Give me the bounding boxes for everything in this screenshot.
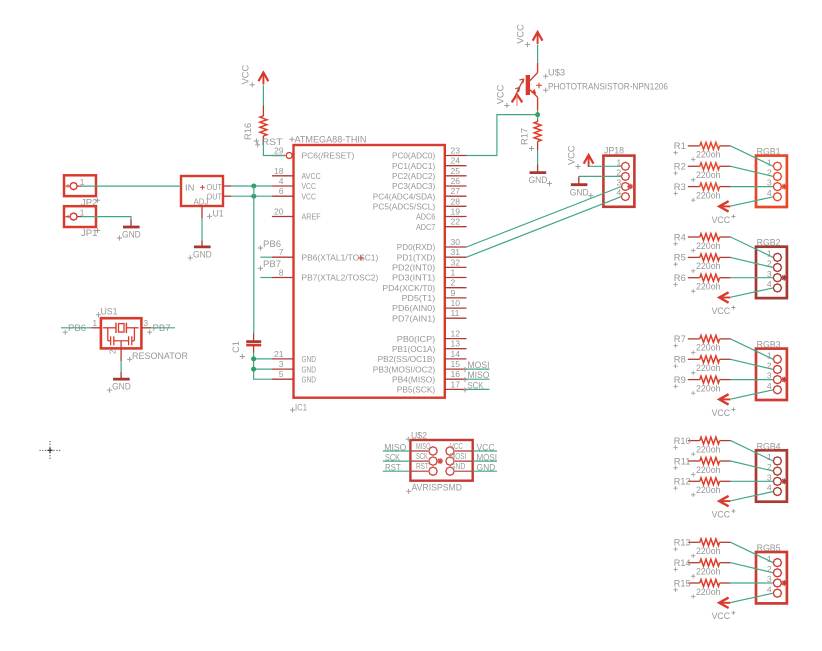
svg-text:JP1: JP1 — [81, 227, 98, 238]
svg-text:MOSI: MOSI — [450, 451, 466, 461]
origin crosshair — [40, 441, 62, 461]
svg-text:2: 2 — [451, 278, 456, 288]
RGB5 pin 3 direction arrow — [781, 580, 787, 586]
IC1 pin 23 PC0(ADC0) — [392, 146, 467, 161]
svg-text:PB7(XTAL2/TOSC2): PB7(XTAL2/TOSC2) — [302, 273, 379, 283]
capacitor C1 — [246, 334, 261, 353]
svg-text:PC1(ADC1): PC1(ADC1) — [392, 161, 435, 171]
RGB1 pin 2 pad — [767, 168, 782, 181]
U$2 left pin RST — [410, 461, 437, 475]
resistor R16 — [243, 106, 267, 144]
svg-text:1: 1 — [93, 319, 98, 328]
JP18 pin 1 pad — [617, 157, 630, 170]
svg-text:30: 30 — [451, 237, 461, 247]
connector JP18 body — [603, 156, 634, 207]
svg-text:RGB3: RGB3 — [757, 340, 781, 350]
U$2 left pin MISO — [410, 441, 437, 455]
svg-text:11: 11 — [451, 308, 460, 318]
svg-text:VCC: VCC — [712, 306, 731, 316]
svg-text:220oh: 220oh — [696, 444, 721, 454]
connector RGB4 body — [756, 450, 787, 501]
RGB1 pin 4 pad — [767, 188, 782, 201]
svg-text:5: 5 — [279, 369, 284, 379]
net label RST left — [385, 463, 401, 473]
svg-text:PB2(SS/OC1B): PB2(SS/OC1B) — [378, 354, 436, 364]
wire C1 to GND pins — [254, 353, 272, 380]
VCC supply arrow at RGB1 — [719, 201, 730, 211]
svg-text:ADJ: ADJ — [194, 196, 209, 206]
resistor R8 — [673, 355, 730, 369]
resistor R17 — [519, 120, 541, 152]
wire JP1 to ground — [82, 217, 131, 220]
net label PB6 left — [63, 323, 86, 335]
IC1 pin 12 PB0(ICP) — [397, 329, 467, 344]
svg-text:PB0(ICP): PB0(ICP) — [397, 334, 436, 344]
net label MOSI — [462, 360, 489, 372]
svg-text:1: 1 — [451, 268, 456, 278]
svg-text:VCC: VCC — [240, 64, 250, 84]
svg-text:220oh: 220oh — [696, 363, 721, 373]
svg-text:RST: RST — [262, 136, 283, 147]
svg-text:VCC: VCC — [302, 181, 316, 191]
svg-text:ADC6: ADC6 — [416, 212, 435, 222]
resistor R13 — [673, 538, 730, 552]
RGB1 pin 3 pad — [767, 178, 782, 191]
RGB4 pin 4 pad — [767, 483, 782, 496]
VCC label rotated by light arrows — [495, 84, 509, 108]
wire PB6 to resonator — [61, 327, 101, 329]
wire U1 OUT2 to VCC pin 6 — [231, 195, 272, 197]
svg-text:VCC: VCC — [712, 510, 731, 520]
wire R8 to RGB3 pin2 — [731, 359, 774, 369]
net label PB7 at pin 8 — [258, 259, 281, 271]
wire pin 7 PB6 — [260, 256, 272, 258]
ground symbol at JP18 pin 2 — [570, 176, 594, 198]
voltage regulator U1 body — [181, 176, 223, 206]
IC1 pin 14 PB2(SS/OC1B) — [378, 349, 467, 364]
svg-text:4: 4 — [767, 381, 772, 391]
resistor R15 — [673, 578, 730, 592]
IC1 pin 18 AVCC — [272, 166, 321, 181]
svg-text:26: 26 — [451, 176, 461, 186]
svg-text:PD5(T1): PD5(T1) — [402, 293, 436, 303]
connector RGB2 body — [756, 247, 787, 298]
wire U$2 to GND — [473, 470, 497, 472]
svg-text:RESONATOR: RESONATOR — [132, 351, 188, 362]
net label SCK left — [385, 453, 401, 463]
RGB3 pin 3 direction arrow — [781, 377, 787, 383]
wire R10 to RGB4 pin1 — [731, 441, 774, 461]
svg-text:3: 3 — [144, 319, 149, 328]
US1 pin 1 number — [93, 319, 98, 328]
RGB2 pin 1 pad — [767, 249, 782, 262]
svg-text:VCC: VCC — [712, 215, 731, 225]
svg-text:PD7(AIN1): PD7(AIN1) — [392, 313, 435, 323]
svg-text:MISO: MISO — [416, 441, 431, 451]
wire RGB3 pin4 to VCC — [731, 390, 773, 399]
svg-text:IN: IN — [185, 183, 195, 193]
wire R5 to RGB2 pin2 — [731, 257, 774, 267]
R13 value 220oh — [691, 546, 721, 558]
RGB1 pin 3 direction arrow — [781, 184, 787, 190]
wire US1 pin2 to ground — [120, 361, 122, 372]
svg-text:PD3(INT1): PD3(INT1) — [392, 273, 435, 283]
wire R4 to RGB2 pin1 — [731, 237, 774, 257]
svg-text:15: 15 — [451, 359, 461, 369]
svg-text:AVCC: AVCC — [302, 171, 321, 181]
RGB5 reference label — [757, 543, 781, 553]
resistor R12 — [673, 477, 730, 491]
svg-text:23: 23 — [451, 146, 461, 156]
VCC label at RGB1 — [712, 214, 736, 224]
IC1 pin 24 PC1(ADC1) — [392, 156, 467, 171]
VCC supply at JP18 pin 1 — [566, 145, 593, 169]
wire VCC to R16 — [262, 85, 264, 105]
RGB4 reference label — [757, 441, 781, 451]
IC1 pin 21 GND — [272, 349, 316, 364]
wire GND pin 3 tap — [254, 368, 272, 370]
svg-text:R13: R13 — [674, 538, 691, 548]
svg-text:220oh: 220oh — [696, 546, 721, 556]
svg-text:PC2(ADC2): PC2(ADC2) — [392, 171, 435, 181]
junction node VCC B — [251, 194, 256, 199]
VCC supply arrow at RGB5 — [719, 598, 730, 608]
RGB1 pin 1 pad — [767, 157, 782, 170]
svg-text:32: 32 — [451, 257, 461, 267]
R7 value 220oh — [691, 343, 721, 355]
wire RGB4 pin4 to VCC — [731, 492, 773, 501]
resistor R10 — [673, 436, 730, 450]
R12 value 220oh — [691, 485, 721, 497]
connector RGB3 body — [756, 349, 787, 400]
svg-text:ATMEGA88-THIN: ATMEGA88-THIN — [295, 134, 367, 145]
svg-text:18: 18 — [274, 166, 284, 176]
RGB2 pin 3 direction arrow — [781, 275, 787, 281]
svg-text:PD1(TXD): PD1(TXD) — [397, 252, 436, 262]
IC1 pin 3 GND — [272, 359, 316, 374]
ground symbol below JP1 — [117, 220, 141, 241]
IC1 pin 10 PD6(AIN0) — [392, 298, 467, 313]
svg-text:R14: R14 — [674, 558, 691, 568]
IC1 pin 28 PC5(ADC5/SCL) — [373, 196, 467, 211]
net label PB7 right — [147, 323, 170, 335]
JP18 pin 3 pad — [617, 178, 630, 191]
IC1 pin 29 PC6(/RESET) — [272, 146, 355, 161]
IC1 reference label — [290, 402, 307, 413]
US1 pin 3 number — [144, 319, 149, 328]
svg-text:3: 3 — [279, 359, 284, 369]
svg-text:R16: R16 — [243, 123, 253, 140]
R10 value 220oh — [691, 444, 721, 456]
svg-text:20: 20 — [274, 207, 284, 217]
JP2 reference label — [81, 197, 100, 208]
resistor R9 — [673, 375, 730, 389]
IC1 pin 11 PD7(AIN1) — [392, 308, 467, 323]
R9 value 220oh — [691, 383, 721, 395]
phototransistor U$3 — [526, 63, 542, 110]
wire R1 to RGB1 pin1 — [731, 146, 774, 166]
net label PB6 at pin 7 — [258, 239, 281, 251]
svg-text:PB5(SCK): PB5(SCK) — [397, 385, 436, 395]
wire GND pin 21 tap — [254, 358, 272, 360]
svg-text:16: 16 — [451, 369, 461, 379]
svg-text:RGB5: RGB5 — [757, 543, 781, 553]
svg-text:PB7: PB7 — [263, 259, 281, 269]
svg-text:PC4(ADC4/SDA): PC4(ADC4/SDA) — [373, 191, 436, 201]
svg-text:PD2(INT0): PD2(INT0) — [392, 263, 435, 273]
resistor R4 — [673, 232, 730, 246]
wire VCC to phototransistor — [537, 45, 539, 64]
svg-text:220oh: 220oh — [696, 241, 721, 251]
svg-text:OUT: OUT — [207, 182, 223, 192]
U$2 left pin SCK — [410, 451, 443, 465]
svg-text:GND: GND — [302, 354, 316, 364]
wire R6 to RGB2 pin3 — [731, 277, 774, 279]
svg-text:RGB4: RGB4 — [757, 441, 781, 451]
light arrows into U$3 — [513, 79, 524, 100]
svg-text:GND: GND — [302, 374, 316, 384]
svg-text:PD0(RXD): PD0(RXD) — [397, 242, 436, 252]
svg-text:PB4(MISO): PB4(MISO) — [392, 374, 435, 384]
svg-text:4: 4 — [767, 483, 772, 493]
wire SCK — [467, 388, 490, 390]
wire emitter to junction — [537, 110, 539, 120]
svg-text:220oh: 220oh — [696, 261, 721, 271]
US1 reference label — [96, 305, 118, 317]
svg-text:PC5(ADC5/SCL): PC5(ADC5/SCL) — [373, 202, 436, 212]
IC1 pin 5 GND — [272, 369, 316, 384]
IC1 pin 27 PC4(ADC4/SDA) — [373, 186, 467, 201]
svg-text:JP18: JP18 — [604, 144, 624, 155]
svg-text:220oh: 220oh — [696, 485, 721, 495]
svg-text:U$3: U$3 — [548, 68, 565, 78]
svg-text:4: 4 — [279, 176, 284, 186]
IC1 pin 19 ADC6 — [416, 207, 467, 222]
svg-text:22: 22 — [451, 217, 461, 227]
wire MOSI — [467, 368, 490, 370]
svg-text:U1: U1 — [213, 208, 224, 219]
connector JP1 — [64, 206, 96, 227]
svg-text:14: 14 — [451, 349, 461, 359]
svg-text:GND: GND — [193, 250, 212, 260]
IC1 pin 4 VCC — [272, 176, 316, 191]
svg-text:IC1: IC1 — [295, 402, 307, 413]
RGB5 pin 1 pad — [767, 554, 782, 567]
net label MISO — [462, 370, 489, 382]
wire R14 to RGB5 pin2 — [731, 563, 774, 573]
RGB5 pin 3 pad — [767, 574, 782, 587]
svg-text:PC3(ADC3): PC3(ADC3) — [392, 181, 435, 191]
R2 value 220oh — [691, 170, 721, 182]
red origin cross on IC1 — [358, 255, 363, 260]
svg-text:VCC: VCC — [495, 84, 505, 104]
wire U$2 to MOSI — [473, 460, 497, 462]
svg-text:VCC: VCC — [302, 191, 316, 201]
IC1 pin 15 PB3(MOSI/OC2) — [373, 359, 467, 374]
svg-text:PC6(/RESET): PC6(/RESET) — [302, 151, 355, 161]
U$3 value label — [543, 82, 668, 93]
wire RGB5 pin4 to VCC — [731, 593, 773, 602]
svg-text:PB6(XTAL1/TOSC1): PB6(XTAL1/TOSC1) — [302, 252, 379, 262]
svg-text:R1: R1 — [674, 141, 686, 151]
VCC supply arrow at RGB4 — [719, 496, 730, 506]
IC1 pin 6 VCC — [272, 186, 316, 201]
svg-text:13: 13 — [451, 339, 461, 349]
svg-text:VCC: VCC — [712, 408, 731, 418]
wire R13 to RGB5 pin1 — [731, 542, 774, 562]
svg-text:12: 12 — [451, 329, 461, 339]
IC1 pin 8 PB7(XTAL2/TOSC2) — [272, 268, 379, 283]
junction node GND A — [251, 356, 256, 361]
svg-text:PB6: PB6 — [263, 239, 281, 249]
ground symbol below US1 — [107, 372, 131, 393]
resistor R1 — [673, 141, 730, 155]
svg-text:220oh: 220oh — [696, 383, 721, 393]
VCC supply arrow at RGB3 — [719, 394, 730, 404]
svg-text:AREF: AREF — [302, 212, 321, 222]
R14 value 220oh — [691, 567, 721, 579]
svg-text:28: 28 — [451, 196, 461, 206]
svg-text:VCC: VCC — [712, 611, 731, 621]
VCC supply arrow at U$3 base — [512, 95, 523, 106]
RGB3 reference label — [757, 340, 781, 350]
svg-text:VCC: VCC — [450, 441, 463, 451]
wire U$2 to VCC — [473, 450, 497, 452]
svg-text:ADC7: ADC7 — [416, 222, 435, 232]
IC IC1 ATMEGA88-THIN body — [294, 145, 445, 398]
IC1 part name label — [289, 134, 366, 145]
RGB2 pin 3 pad — [767, 269, 782, 282]
IC1 pin 22 ADC7 — [416, 217, 467, 232]
svg-text:R2: R2 — [674, 162, 686, 172]
JP18 pin 4 pad — [617, 188, 630, 201]
svg-text:R4: R4 — [674, 232, 686, 242]
svg-text:21: 21 — [274, 349, 284, 359]
wire MISO to U$2 — [383, 450, 411, 452]
R6 value 220oh — [691, 282, 721, 294]
junction node emitter — [535, 112, 540, 117]
resistor R2 — [673, 162, 730, 176]
US1 pin 2 number — [108, 349, 117, 354]
IC1 pin 1 PD3(INT1) — [392, 268, 467, 283]
svg-text:PB3(MOSI/OC2): PB3(MOSI/OC2) — [373, 364, 436, 374]
wire R3 to RGB1 pin3 — [731, 186, 774, 188]
U$2 value label AVRISPSMD — [406, 482, 462, 494]
wire SCK to U$2 — [383, 460, 411, 462]
wire MISO — [467, 378, 490, 380]
net label RST — [255, 136, 283, 147]
U$2 right pin GND — [446, 461, 473, 475]
IC1 pin 7 PB6(XTAL1/TOSC1) — [272, 247, 379, 262]
svg-text:R12: R12 — [674, 477, 691, 487]
svg-text:19: 19 — [451, 207, 461, 217]
IC1 pin 25 PC2(ADC2) — [392, 166, 467, 181]
RGB4 pin 1 pad — [767, 452, 782, 465]
wire pin 8 PB7 — [260, 277, 272, 279]
net label VCC right — [477, 442, 495, 452]
RGB2 pin 4 pad — [767, 279, 782, 292]
svg-text:GND: GND — [112, 382, 131, 392]
U$2 right pin VCC — [446, 441, 473, 455]
RGB3 pin 1 pad — [767, 350, 782, 363]
junction node GND B — [251, 367, 256, 372]
svg-text:4: 4 — [767, 584, 772, 594]
resistor R7 — [673, 334, 730, 348]
svg-text:4: 4 — [767, 279, 772, 289]
wire RGB2 pin4 to VCC — [731, 288, 773, 297]
wire JP2 to U1 IN — [82, 185, 181, 187]
IC1 pin 20 AREF — [272, 207, 321, 222]
wire R2 to RGB1 pin2 — [731, 166, 774, 176]
net label GND right — [477, 463, 496, 473]
R4 value 220oh — [691, 241, 721, 253]
svg-text:GND: GND — [450, 461, 465, 471]
svg-text:GND: GND — [122, 230, 141, 240]
wire RST to pin 29 — [263, 142, 285, 155]
svg-text:R6: R6 — [674, 273, 686, 283]
R8 value 220oh — [691, 363, 721, 375]
wire resonator to PB7 — [141, 327, 175, 329]
svg-text:RGB1: RGB1 — [757, 147, 781, 157]
VCC label at RGB4 — [712, 509, 736, 519]
IC1 pin 31 PD1(TXD) — [397, 247, 467, 262]
RGB3 pin 2 pad — [767, 361, 782, 374]
U1 output stubs — [223, 186, 231, 196]
wire R9 to RGB3 pin3 — [731, 379, 774, 381]
svg-text:PHOTOTRANSISTOR-NPN1206: PHOTOTRANSISTOR-NPN1206 — [548, 82, 668, 92]
VCC label at RGB3 — [712, 407, 736, 417]
svg-text:10: 10 — [451, 298, 461, 308]
ground symbol below U1 — [188, 241, 213, 261]
svg-text:R17: R17 — [519, 128, 529, 145]
svg-text:220oh: 220oh — [696, 587, 721, 597]
resonator US1 body — [101, 318, 141, 348]
IC1 pin 17 PB5(SCK) — [397, 379, 467, 394]
net label SCK — [462, 380, 484, 392]
US1 pin 2 lead — [120, 348, 122, 361]
RGB4 pin 3 direction arrow — [781, 478, 787, 484]
wire R11 to RGB4 pin2 — [731, 461, 774, 471]
svg-text:PC0(ADC0): PC0(ADC0) — [392, 151, 435, 161]
junction node VCC A — [251, 184, 256, 189]
svg-text:R3: R3 — [674, 182, 686, 192]
resistor R3 — [673, 182, 730, 196]
R5 value 220oh — [691, 261, 721, 273]
svg-text:VCC: VCC — [516, 24, 526, 44]
resistor R5 — [673, 253, 730, 267]
svg-text:R10: R10 — [674, 436, 691, 446]
US1 value label RESONATOR — [127, 351, 188, 362]
svg-text:AVRISPSMD: AVRISPSMD — [412, 482, 463, 493]
net label MISO left — [384, 442, 406, 452]
svg-text:R8: R8 — [674, 355, 686, 365]
ground symbol below R17 — [529, 165, 553, 187]
svg-text:OUT: OUT — [207, 192, 223, 202]
wire RGB1 pin4 to VCC — [731, 197, 773, 206]
connector JP2 — [64, 175, 96, 196]
wire RST to U$2 — [383, 470, 411, 472]
connector RGB5 body — [756, 552, 787, 603]
svg-text:SCK: SCK — [416, 451, 428, 461]
RGB5 pin 4 pad — [767, 584, 782, 597]
svg-text:R15: R15 — [674, 578, 691, 588]
resistor R11 — [673, 456, 730, 470]
svg-text:9: 9 — [451, 288, 456, 298]
svg-text:4: 4 — [767, 188, 772, 198]
svg-text:2: 2 — [108, 349, 117, 354]
net label MOSI right — [477, 453, 498, 463]
RGB3 pin 3 pad — [767, 371, 782, 384]
